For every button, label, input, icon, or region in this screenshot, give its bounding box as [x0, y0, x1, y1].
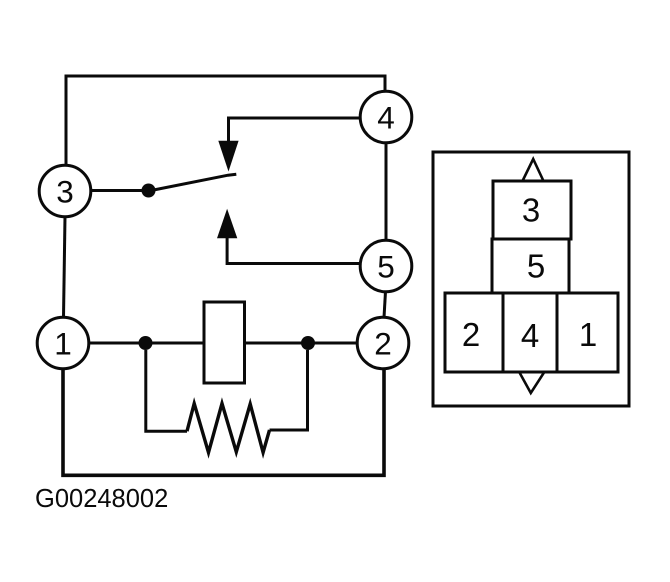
junction dot right of coil [301, 336, 315, 350]
wire relay coil to terminal 2 [245, 342, 358, 345]
svg-text:3: 3 [56, 174, 74, 210]
pin 2 label [462, 316, 480, 353]
wire terminal 3 to switch pivot node [91, 189, 149, 192]
terminal 4 [360, 91, 412, 143]
svg-text:3: 3 [522, 192, 540, 229]
pin cavity divider 2|4 [502, 293, 505, 372]
wire bottom loop terminal 1 to terminal 2 [63, 369, 384, 476]
svg-text:4: 4 [521, 317, 539, 354]
svg-text:2: 2 [462, 316, 480, 353]
svg-text:5: 5 [377, 249, 395, 285]
wire from terminal 4 to upper fixed contact [229, 118, 362, 142]
wire resistor to right junction [270, 350, 308, 430]
wire terminal 3 down to terminal 1 [64, 217, 66, 318]
upper fixed contact arrow (points down) [218, 141, 238, 172]
wire terminal 1 to relay coil [89, 342, 205, 345]
relay coil [204, 302, 245, 383]
switch movable contact arm [149, 174, 237, 191]
terminal 2 [357, 317, 409, 369]
wire terminal 4 to terminal 5 [385, 143, 388, 241]
terminal 3 [39, 165, 91, 217]
figure id G00248002 [35, 485, 168, 513]
svg-text:4: 4 [377, 100, 395, 136]
terminal 1 [37, 317, 89, 369]
terminal 5 [360, 240, 412, 292]
junction dot at switch pivot [142, 184, 156, 198]
junction dot left of coil [139, 336, 153, 350]
wire top loop from terminal 3 up and across to terminal 4 [66, 76, 385, 166]
lower fixed contact arrow (points up) [217, 209, 237, 239]
connector view outline [433, 152, 629, 406]
svg-text:5: 5 [527, 248, 545, 285]
pin cavity row 2-4-1 [445, 293, 618, 372]
wire terminal 5 to terminal 2 [384, 292, 386, 318]
pin cavity divider 4|1 [556, 293, 559, 372]
pin 4 label [521, 317, 539, 354]
svg-text:1: 1 [579, 316, 597, 353]
svg-text:2: 2 [374, 326, 392, 362]
connector keyway bottom [520, 373, 545, 394]
connector keyway top [523, 159, 544, 181]
pin cavity 3 [493, 181, 571, 239]
wire left junction down to resistor [146, 350, 187, 431]
resistor (parallel with coil) [187, 404, 270, 453]
svg-text:G00248002: G00248002 [35, 485, 168, 513]
pin cavity 5 [492, 239, 569, 293]
pin 1 label [579, 316, 597, 353]
wire from lower fixed contact to terminal 5 [227, 236, 360, 264]
svg-text:1: 1 [54, 326, 72, 362]
